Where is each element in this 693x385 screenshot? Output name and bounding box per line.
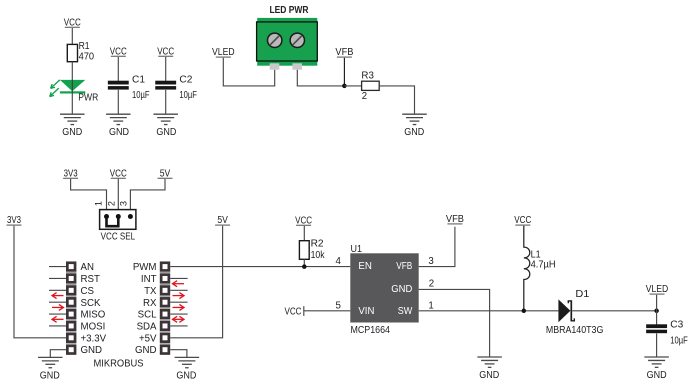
wire xyxy=(170,226,222,338)
arrow TX out xyxy=(173,293,185,299)
node 3V3 (vcc sel) xyxy=(63,168,78,179)
wire xyxy=(572,310,656,312)
wire xyxy=(165,57,167,81)
junction xyxy=(342,84,347,89)
svg-text:VIN: VIN xyxy=(358,306,374,317)
svg-text:SCL: SCL xyxy=(138,310,157,321)
node VCC (VIN) xyxy=(285,306,304,317)
svg-text:PWR: PWR xyxy=(78,93,98,104)
node VLED xyxy=(212,47,235,58)
svg-text:10µF: 10µF xyxy=(132,90,150,101)
svg-text:GND: GND xyxy=(40,371,60,382)
svg-text:VCC SEL: VCC SEL xyxy=(101,231,136,242)
wire xyxy=(170,325,187,327)
svg-text:SW: SW xyxy=(398,306,413,317)
resistor R1 xyxy=(67,41,94,63)
node VLED (output) xyxy=(646,284,669,295)
svg-text:CS: CS xyxy=(81,286,95,297)
svg-text:10k: 10k xyxy=(311,250,325,261)
wire xyxy=(165,90,167,114)
wire xyxy=(49,313,66,315)
wire xyxy=(170,289,187,291)
wire xyxy=(304,310,351,312)
svg-text:MCP1664: MCP1664 xyxy=(351,325,391,336)
capacitor C2 xyxy=(155,75,197,102)
svg-text:D1: D1 xyxy=(575,289,589,300)
wire xyxy=(71,62,73,80)
svg-text:R2: R2 xyxy=(311,238,324,249)
svg-text:1: 1 xyxy=(93,201,103,206)
svg-text:10µF: 10µF xyxy=(670,335,688,346)
wire xyxy=(170,277,187,279)
diode D1 MBRA140T3G xyxy=(546,289,604,336)
LED PWR (green) xyxy=(50,80,86,97)
connector VCC SEL xyxy=(100,210,136,230)
svg-text:470: 470 xyxy=(79,52,95,63)
svg-text:VCC: VCC xyxy=(285,306,302,317)
svg-text:2: 2 xyxy=(107,201,117,206)
ground xyxy=(153,114,178,138)
svg-text:SCK: SCK xyxy=(81,298,101,309)
wire xyxy=(297,70,344,86)
wire xyxy=(71,80,73,94)
svg-text:+5V: +5V xyxy=(139,333,157,344)
svg-text:GND: GND xyxy=(62,127,82,138)
wire VFB pin3 xyxy=(419,227,455,267)
wire GND pin2 xyxy=(419,289,490,357)
wire xyxy=(656,295,658,325)
arrow MISO out xyxy=(52,304,64,310)
wire xyxy=(71,28,73,44)
wire xyxy=(117,179,119,216)
svg-text:SDA: SDA xyxy=(137,322,157,333)
capacitor C1 xyxy=(108,75,150,102)
svg-text:AN: AN xyxy=(81,262,94,273)
junction xyxy=(522,309,527,314)
junction xyxy=(654,309,659,314)
wire xyxy=(49,289,66,291)
svg-text:GND: GND xyxy=(176,371,196,382)
svg-text:4.7µH: 4.7µH xyxy=(531,260,556,271)
svg-text:MIKROBUS: MIKROBUS xyxy=(94,359,145,370)
wire xyxy=(170,301,187,303)
svg-text:GND: GND xyxy=(404,127,424,138)
svg-text:VFB: VFB xyxy=(396,261,412,272)
wire xyxy=(379,86,414,114)
svg-text:LED PWR: LED PWR xyxy=(270,5,310,16)
wire PWM to EN xyxy=(170,266,350,268)
connector MIKROBUS left header P1 xyxy=(66,261,76,354)
arrow SCL bidir xyxy=(173,316,185,322)
svg-text:RST: RST xyxy=(81,274,100,285)
svg-text:U1: U1 xyxy=(351,244,363,255)
svg-text:C3: C3 xyxy=(670,320,683,331)
svg-text:GND: GND xyxy=(81,345,103,356)
node 3V3 (mikrobus) xyxy=(7,215,22,226)
svg-text:GND: GND xyxy=(156,127,176,138)
node VCC (C2) xyxy=(157,46,174,57)
wire xyxy=(71,94,73,115)
wire xyxy=(49,301,66,303)
svg-text:2: 2 xyxy=(362,91,367,102)
ground xyxy=(402,114,427,138)
wire xyxy=(223,58,274,86)
node VCC (R1 pull-up) xyxy=(64,17,81,28)
arrow RX out xyxy=(173,304,185,310)
node VCC (vcc sel) xyxy=(110,168,127,179)
node 5V (mikrobus) xyxy=(215,215,230,226)
junction xyxy=(302,264,307,269)
node VCC (C1) xyxy=(110,46,127,57)
wire xyxy=(117,57,119,81)
arrow SCK in xyxy=(52,293,64,299)
node VCC (R2) xyxy=(295,215,312,226)
ground xyxy=(60,114,85,138)
arrow MOSI in xyxy=(52,316,64,322)
wire xyxy=(50,350,66,358)
wire xyxy=(344,85,361,87)
svg-text:GND: GND xyxy=(391,284,412,295)
connector LED PWR (screw terminal) xyxy=(257,5,318,70)
ground xyxy=(644,357,669,381)
svg-text:MOSI: MOSI xyxy=(81,322,106,333)
wire xyxy=(49,266,66,268)
wire xyxy=(343,58,345,86)
wire xyxy=(303,259,305,266)
svg-text:MBRA140T3G: MBRA140T3G xyxy=(546,325,604,336)
node VFB xyxy=(335,47,353,58)
node VFB (U1) xyxy=(446,214,464,225)
svg-text:3: 3 xyxy=(428,256,433,267)
wire xyxy=(656,333,658,357)
svg-text:C2: C2 xyxy=(179,75,192,86)
resistor R2 xyxy=(299,238,324,261)
svg-text:R1: R1 xyxy=(79,41,90,52)
svg-text:PWM: PWM xyxy=(133,262,157,273)
wire xyxy=(170,350,187,358)
svg-text:GND: GND xyxy=(109,127,129,138)
svg-text:RX: RX xyxy=(143,298,157,309)
wire SW pin1 xyxy=(419,310,559,312)
svg-text:1: 1 xyxy=(428,301,433,312)
resistor R3 xyxy=(361,70,379,102)
arrow INT in xyxy=(173,281,185,287)
wire xyxy=(117,90,119,114)
wire xyxy=(49,277,66,279)
svg-text:2: 2 xyxy=(429,278,434,289)
ground xyxy=(477,357,502,381)
node VCC (L1) xyxy=(514,215,531,226)
svg-text:EN: EN xyxy=(358,261,372,272)
wire xyxy=(170,313,187,315)
svg-text:+3.3V: +3.3V xyxy=(81,333,107,344)
svg-text:R3: R3 xyxy=(361,70,374,81)
wire xyxy=(303,226,305,241)
svg-text:GND: GND xyxy=(647,370,667,381)
svg-text:GND: GND xyxy=(135,345,157,356)
wire xyxy=(14,226,66,338)
wire xyxy=(49,325,66,327)
ground xyxy=(38,357,63,381)
svg-text:10µF: 10µF xyxy=(179,90,197,101)
wire xyxy=(71,179,107,216)
wire xyxy=(130,179,165,216)
svg-text:5: 5 xyxy=(336,301,341,312)
node 5V (vcc sel) xyxy=(158,168,173,179)
svg-text:4: 4 xyxy=(336,256,342,267)
inductor L1 xyxy=(524,226,556,311)
svg-text:C1: C1 xyxy=(132,75,145,86)
svg-text:MISO: MISO xyxy=(81,310,106,321)
ground xyxy=(175,357,200,381)
svg-text:3: 3 xyxy=(119,201,129,206)
svg-text:TX: TX xyxy=(144,286,157,297)
svg-text:INT: INT xyxy=(141,274,157,285)
svg-text:GND: GND xyxy=(479,370,499,381)
capacitor C3 xyxy=(646,320,688,347)
ground xyxy=(106,114,131,138)
connector MIKROBUS right header P2 xyxy=(160,261,170,354)
op-amp U1 MCP1664 xyxy=(350,244,418,323)
